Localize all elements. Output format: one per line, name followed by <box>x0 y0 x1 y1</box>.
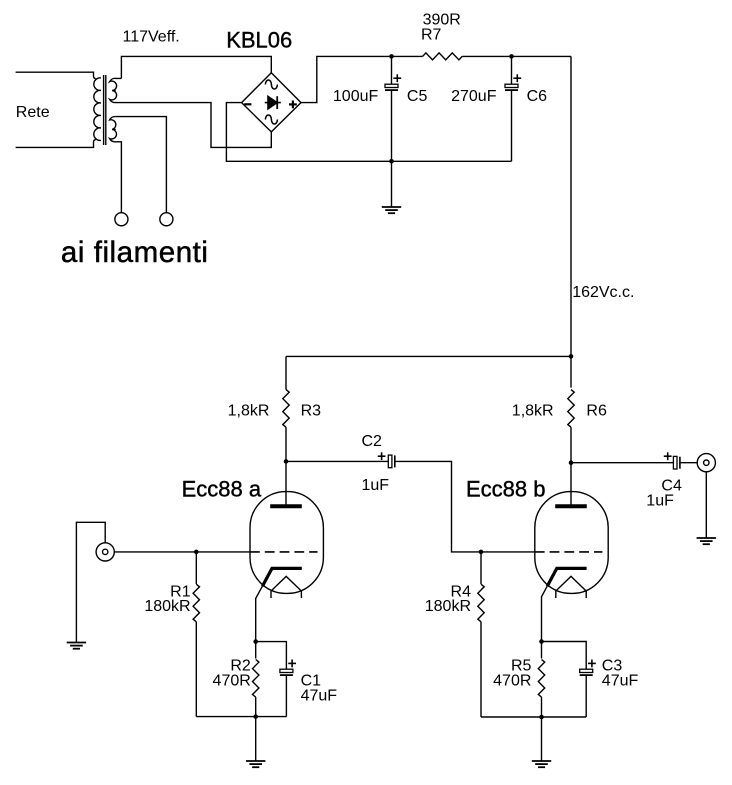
wire C2 left lead <box>286 460 388 462</box>
wire R4 bottom to rail <box>480 622 482 717</box>
wire HT rail 162Vc.c. <box>570 56 572 387</box>
wire cathode b bottom rail <box>481 716 586 718</box>
wire secondary bottom to bridge AC2 <box>115 103 272 148</box>
resistor R4 <box>478 584 484 622</box>
transformer secondary filament winding <box>110 117 117 142</box>
transformer secondary HT winding <box>110 78 122 102</box>
wire C1 bottom lead <box>285 675 287 717</box>
resistor R6 <box>568 390 574 428</box>
ground stage b <box>532 761 551 767</box>
bridge plus mark <box>289 101 297 109</box>
wire C2 to grid b <box>395 461 535 552</box>
svg-text:R6: R6 <box>586 403 607 420</box>
svg-text:Ecc88 b: Ecc88 b <box>466 477 546 502</box>
svg-text:Rete: Rete <box>16 104 50 121</box>
tube a heater <box>271 576 301 598</box>
wire C4 to output jack <box>680 462 698 464</box>
ground input jack <box>67 643 86 649</box>
tube b cathode lead <box>542 586 548 641</box>
wire filament winding to right terminal <box>116 117 167 213</box>
capacitor C5 bottom lead <box>391 90 393 161</box>
capacitor C2 <box>388 455 395 468</box>
wire bridge - to ground rail <box>226 103 511 162</box>
transformer primary winding <box>94 78 101 141</box>
capacitor C6 plus <box>513 74 521 82</box>
svg-text:C5: C5 <box>407 88 428 105</box>
node anode a / C2 <box>284 459 289 464</box>
svg-text:1uF: 1uF <box>362 477 390 494</box>
capacitor C6 top lead <box>511 56 513 84</box>
wire C3 top lead <box>542 642 587 670</box>
wire R1 top stub <box>195 552 197 584</box>
svg-text:100uF: 100uF <box>333 88 379 105</box>
resistor R2 <box>253 660 259 698</box>
bridge AC mark top <box>265 80 277 89</box>
tube b grid (dashed) <box>535 551 603 553</box>
svg-text:C6: C6 <box>527 88 548 105</box>
ground supply <box>382 207 401 213</box>
tube b cathode plate <box>547 568 586 586</box>
wire R2 bottom stub <box>255 697 257 717</box>
wire bridge + output to top rail <box>301 56 423 102</box>
transformer secondary HT winding pinch <box>112 90 115 92</box>
bridge rectifier KBL06 body <box>242 73 301 132</box>
capacitor C1 plus <box>288 660 296 668</box>
wire R6 bottom to anode b <box>570 427 572 504</box>
capacitor C6 bottom lead <box>511 90 513 161</box>
svg-text:47uF: 47uF <box>602 673 639 690</box>
wire ground stem of supply <box>391 161 393 207</box>
junction grid a / R1 <box>194 550 199 555</box>
tube b heater <box>556 576 586 598</box>
capacitor C4 <box>673 456 680 469</box>
svg-text:180kR: 180kR <box>144 598 190 615</box>
bridge AC mark bottom <box>265 115 277 124</box>
capacitor C2 plus <box>378 452 386 460</box>
svg-text:470R: 470R <box>213 673 251 690</box>
resistor R5 <box>538 660 544 698</box>
wire input jack to grid a <box>114 551 250 553</box>
junction C6 top <box>509 54 514 59</box>
tube a cathode plate <box>262 568 301 586</box>
bridge internal diode <box>265 96 281 109</box>
resistor R7 <box>423 53 463 60</box>
junction cathode a <box>253 639 258 644</box>
tube a grid (dashed) <box>250 551 318 553</box>
tube a cathode lead <box>256 586 263 641</box>
svg-text:C2: C2 <box>362 433 383 450</box>
node anode b / C4 <box>569 460 574 465</box>
svg-text:1,8kR: 1,8kR <box>512 403 554 420</box>
ground output jack <box>697 538 716 544</box>
svg-text:117Veff.: 117Veff. <box>123 29 180 46</box>
wire ground stem stage a <box>255 717 257 761</box>
output jack J2 <box>697 454 715 472</box>
wire top rail R7 to HT rail corner <box>462 55 571 57</box>
terminal circle right (ai filamenti) <box>160 213 173 226</box>
svg-text:R7: R7 <box>421 26 442 43</box>
wire C4 left lead <box>571 462 673 464</box>
wire R3 top stub <box>285 356 287 389</box>
capacitor C4 plus <box>664 452 672 460</box>
capacitor C3 <box>580 669 593 675</box>
junction C5 top <box>389 54 394 59</box>
capacitor C5 top lead <box>391 56 393 84</box>
junction bottom rail b <box>539 715 544 720</box>
tube b anode plate <box>555 504 587 508</box>
wire input jack ground <box>76 522 105 642</box>
capacitor C6 <box>505 84 518 90</box>
wire C1 top lead <box>256 642 287 670</box>
wire R5 top stub <box>541 642 543 659</box>
bridge minus mark <box>244 103 251 105</box>
input jack J1 <box>96 543 114 561</box>
wire mains top lead <box>16 72 96 79</box>
wire C3 bottom lead <box>585 675 587 717</box>
tube a anode plate <box>270 504 302 508</box>
wire ground stem stage b <box>541 717 543 761</box>
resistor R3 <box>283 390 289 428</box>
wire mains bottom lead <box>16 140 96 148</box>
junction HT branch <box>569 354 574 359</box>
wire R5 bottom stub <box>541 697 543 717</box>
junction grid b / R4 <box>479 550 484 555</box>
tube Ecc88 a envelope <box>250 492 323 594</box>
svg-text:KBL06: KBL06 <box>226 28 292 53</box>
svg-text:1uF: 1uF <box>646 492 674 509</box>
junction cathode b <box>539 639 544 644</box>
svg-text:47uF: 47uF <box>301 688 338 705</box>
wire R1 bottom to rail <box>195 622 197 717</box>
wire cathode a bottom rail <box>196 716 286 718</box>
wire HT rail to R3 branch <box>286 355 571 357</box>
junction supply ground <box>389 159 394 164</box>
transformer secondary filament winding pinch <box>112 128 115 130</box>
capacitor C5 plus <box>393 74 401 82</box>
svg-text:180kR: 180kR <box>425 598 471 615</box>
wire filament winding to left terminal <box>115 142 122 213</box>
svg-text:1,8kR: 1,8kR <box>228 403 270 420</box>
ground stage a <box>246 761 265 767</box>
svg-text:R3: R3 <box>301 403 322 420</box>
svg-text:Ecc88 a: Ecc88 a <box>182 477 262 502</box>
wire R2 top stub <box>255 642 257 659</box>
wire output jack ground stem <box>705 472 707 539</box>
junction bottom rail a <box>253 714 258 719</box>
tube Ecc88 b envelope <box>535 492 608 594</box>
terminal circle left (ai filamenti) <box>115 213 128 226</box>
resistor R1 <box>193 584 199 622</box>
svg-text:ai filamenti: ai filamenti <box>61 236 209 269</box>
svg-text:470R: 470R <box>493 673 531 690</box>
wire 117Veff net: secondary top to bridge AC1 <box>121 56 271 78</box>
capacitor C1 <box>280 669 293 675</box>
svg-text:162Vc.c.: 162Vc.c. <box>572 284 634 301</box>
capacitor C3 plus <box>588 660 596 668</box>
transformer core <box>103 75 105 145</box>
wire R4 top stub <box>480 552 482 584</box>
wire R3 bottom to anode a <box>285 427 287 504</box>
svg-text:270uF: 270uF <box>451 88 497 105</box>
capacitor C5 <box>385 84 398 90</box>
